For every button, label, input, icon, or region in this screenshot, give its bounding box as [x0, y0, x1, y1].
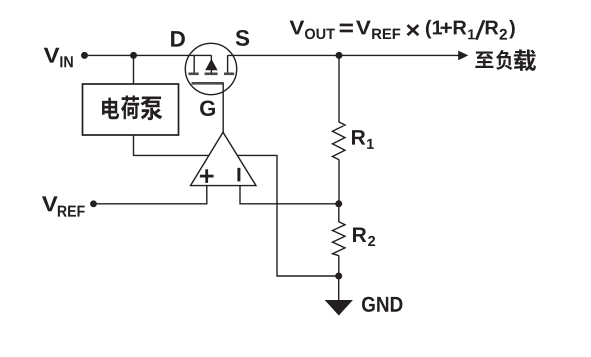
- wire op-amp ground pin to bottom ground node: [232, 155, 339, 276]
- transistor Q1 channel dash right: [224, 73, 234, 76]
- transistor Q1 pass PMOS body circle: [185, 43, 236, 94]
- wire VIN tap down to charge pump: [133, 55, 135, 85]
- wire source to output arrow (main rail right segment): [228, 54, 459, 56]
- wire R2 to ground node: [338, 255, 340, 276]
- node ground junction dot: [335, 273, 342, 280]
- formula equals sign: [340, 24, 353, 33]
- label GND: [362, 297, 402, 312]
- resistor R2 zigzag: [333, 222, 346, 256]
- wire noninverting input pin to VREF: [94, 183, 207, 204]
- transistor Q1 gate bar: [192, 82, 224, 85]
- op-amp U1 triangle: [191, 132, 257, 185]
- wire ground node to GND symbol: [338, 276, 340, 301]
- label D (drain): [171, 31, 185, 46]
- node VIN terminal dot: [81, 52, 88, 59]
- wire VIN to drain (main rail left segment): [88, 54, 212, 56]
- label R2: [353, 228, 375, 246]
- wire VOUT down to R1: [338, 55, 340, 122]
- label G (gate): [200, 100, 215, 116]
- junction dot VIN rail to charge pump tap: [130, 52, 137, 59]
- resistor R1 zigzag: [333, 122, 346, 160]
- label S (source): [236, 30, 249, 46]
- label R1: [352, 130, 374, 149]
- wire feedback node to R2: [338, 204, 340, 222]
- op-amp inverting input marker (rotated minus bar): [237, 168, 240, 182]
- transistor Q1 channel dash left: [189, 73, 199, 76]
- transistor Q1 source terminal vertical: [227, 55, 229, 73]
- label VIN: [44, 48, 73, 67]
- label VREF: [42, 196, 85, 216]
- transistor Q1 channel dash middle: [205, 73, 218, 76]
- output arrowhead to load: [458, 51, 468, 61]
- formula divide slash R1/R2: [476, 20, 484, 40]
- node feedback junction dot (R1/R2 divider tap): [335, 200, 342, 207]
- label 至负载 (to load): [475, 49, 536, 71]
- transistor Q1 body arrow stem: [210, 55, 212, 73]
- wire charge pump output to op-amp supply pin: [134, 135, 217, 155]
- formula multiply sign: [408, 25, 419, 35]
- wire R1 to feedback node: [338, 159, 340, 204]
- label formula VOUT = VREF x (1+R1/R2): [290, 20, 515, 40]
- node VREF terminal dot: [90, 200, 97, 207]
- node VOUT junction dot: [336, 52, 343, 59]
- wire gate to op-amp output: [222, 83, 224, 133]
- op-amp noninverting + input marker: [200, 169, 214, 183]
- transistor Q1 body diode arrow: [205, 59, 217, 70]
- transistor Q1 drain terminal vertical: [193, 55, 195, 73]
- ground GND symbol (filled triangle): [325, 300, 353, 316]
- label 电荷泵 (charge pump): [102, 96, 162, 121]
- charge pump box U2: [83, 84, 179, 135]
- wire inverting input pin to feedback node: [240, 183, 339, 204]
